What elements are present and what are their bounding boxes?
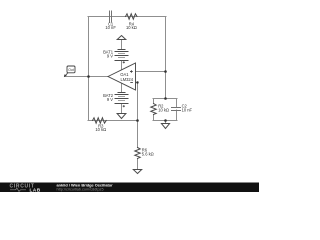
node feedback corner <box>136 81 138 83</box>
svg-text:9 V: 9 V <box>107 97 113 102</box>
svg-text:10 nF: 10 nF <box>105 25 116 30</box>
wire R2C2 frame <box>153 99 177 127</box>
battery BAT2 <box>115 93 128 104</box>
node R2C2 bottom <box>164 119 167 122</box>
wire noninverting input <box>136 71 167 73</box>
ground arrow below R2C2 <box>161 124 169 129</box>
node R2C2 top <box>164 97 167 100</box>
op-amp input polarity markers <box>130 70 133 82</box>
resistor R3 <box>93 118 107 123</box>
resistor R6 <box>135 148 140 159</box>
wire battery leads <box>121 38 123 117</box>
resistor R4 <box>126 14 138 19</box>
svg-text:LAB: LAB <box>30 188 41 193</box>
svg-text:10 kΩ: 10 kΩ <box>158 108 169 113</box>
net arrow down below BAT2 <box>117 114 126 119</box>
battery polarity plus signs <box>123 61 125 107</box>
Out flag <box>64 66 75 77</box>
capacitor C2 <box>172 108 181 111</box>
svg-text:10 kΩ: 10 kΩ <box>126 25 137 30</box>
svg-text:10 nF: 10 nF <box>182 108 193 113</box>
node feedback / R3 <box>136 119 139 122</box>
wire top horizontal <box>88 16 166 18</box>
wire left vertical <box>88 17 90 121</box>
svg-text:5.6 kΩ: 5.6 kΩ <box>142 151 154 156</box>
ground arrow below R6 <box>133 170 141 174</box>
svg-text:10 kΩ: 10 kΩ <box>95 127 106 132</box>
node top branch / +input <box>164 70 167 73</box>
svg-text:Out: Out <box>68 68 74 72</box>
footer CircuitLab logo <box>10 184 41 193</box>
svg-text:LM324: LM324 <box>120 77 133 82</box>
component labels <box>68 21 192 156</box>
svg-text:http://circuitlab.com/c8dtpz5: http://circuitlab.com/c8dtpz5 <box>57 188 104 192</box>
footer bar <box>0 183 259 193</box>
capacitor C1 <box>110 11 112 22</box>
op-amp OA1 <box>108 63 136 90</box>
svg-text:9 V: 9 V <box>107 53 113 58</box>
node output <box>87 75 90 78</box>
wire output to Out flag <box>65 76 109 78</box>
net arrow up above BAT1 <box>117 36 126 40</box>
wire bottom horizontal R3 <box>88 120 138 122</box>
resistor R2 <box>151 104 156 115</box>
battery BAT1 <box>115 50 128 61</box>
wire right vertical <box>165 17 167 99</box>
wire R6 ground lead <box>137 159 139 172</box>
wire inverting input feedback <box>136 83 138 148</box>
